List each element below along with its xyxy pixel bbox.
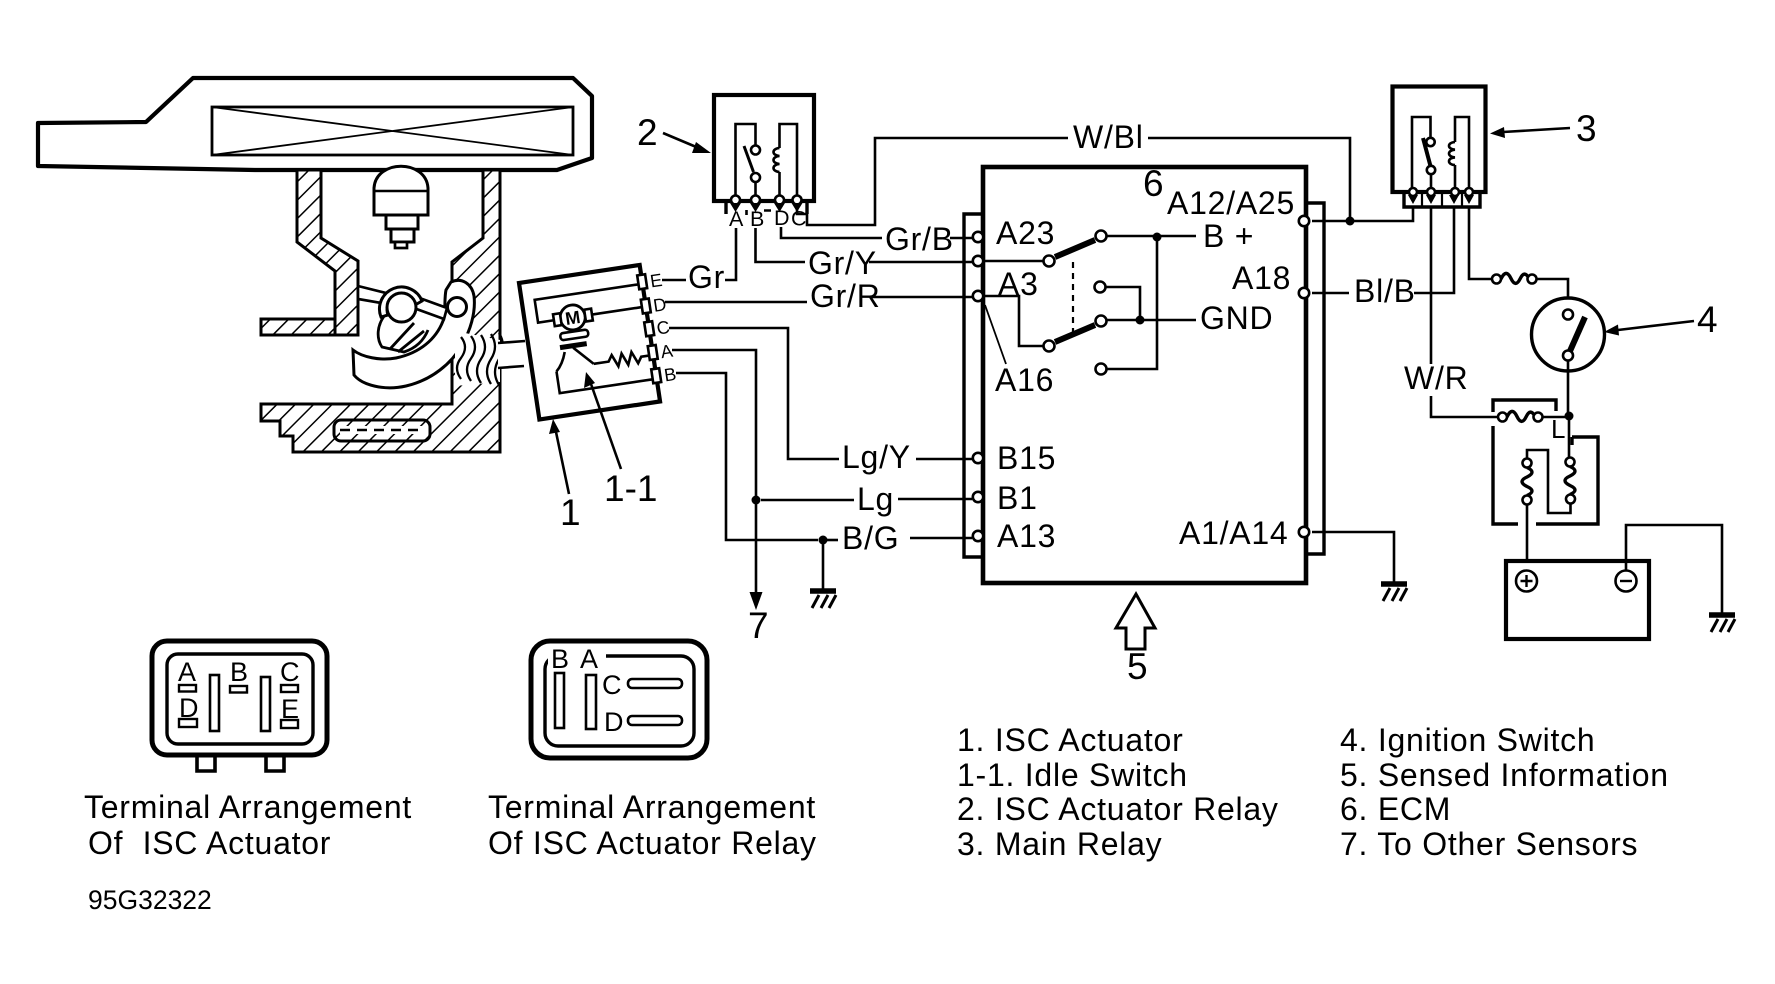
svg-text:D: D (604, 707, 624, 737)
svg-text:A: A (729, 207, 744, 231)
wire Lg (pin A of ISC to ECM B1) (672, 350, 756, 500)
junction GND (1136, 316, 1145, 325)
wire motor to D pin (592, 307, 642, 314)
pin A23 (973, 232, 983, 242)
svg-text:A1/A14: A1/A14 (1179, 515, 1288, 551)
wire A1/A14 to ground (1312, 532, 1394, 583)
svg-text:Gr/R: Gr/R (810, 278, 881, 314)
ground from B/G junction (822, 540, 825, 590)
battery negative terminal (1616, 571, 1637, 592)
pin stubs (637, 274, 647, 289)
pin A12/A25 (1299, 216, 1309, 226)
sensed information arrow (5) (1116, 594, 1155, 649)
pin A23/Gr-Y contact pin (973, 256, 983, 266)
middle contact and GND (1095, 282, 1106, 293)
svg-text:GND: GND (1200, 300, 1273, 336)
wire to other sensors (7) (755, 500, 758, 592)
svg-text:Lg/Y: Lg/Y (842, 439, 911, 475)
svg-text:3: 3 (1576, 108, 1597, 149)
svg-text:Gr: Gr (688, 259, 725, 295)
svg-text:6. ECM: 6. ECM (1340, 791, 1451, 827)
svg-text:A: A (580, 644, 598, 674)
fuse (upper) (1492, 275, 1501, 284)
svg-text:A: A (178, 657, 196, 687)
svg-text:A18: A18 (1232, 260, 1291, 296)
svg-text:1-1. Idle Switch: 1-1. Idle Switch (957, 757, 1188, 793)
svg-text:Terminal Arrangement: Terminal Arrangement (84, 789, 412, 825)
junction B+ (1153, 233, 1162, 242)
pin B1 (973, 492, 983, 502)
svg-text:7. To Other Sensors: 7. To Other Sensors (1340, 826, 1638, 862)
fusible link box outline (1493, 426, 1598, 524)
svg-text:B: B (230, 657, 248, 687)
throttle lever rod upper-left (358, 286, 390, 304)
upper switch (B+ relay contact) (1044, 256, 1055, 267)
ground (battery negative) (1709, 615, 1735, 632)
ganged switch dashed link (1072, 262, 1074, 334)
junction on Lg wire (752, 496, 761, 505)
svg-text:Of ISC Actuator: Of ISC Actuator (88, 825, 331, 861)
small hatched box in floor (334, 420, 430, 441)
ground (A1/A14) (1381, 584, 1407, 601)
wire motor to E pin (535, 284, 642, 322)
svg-text:Gr/Y: Gr/Y (808, 245, 877, 281)
fusible links (1568, 416, 1571, 457)
svg-text:L: L (1551, 414, 1565, 444)
idle switch 1-1 (560, 344, 587, 348)
wire ignition to junction (1567, 361, 1570, 414)
junction on B/G wire (819, 536, 828, 545)
relay 3 shell (1404, 193, 1480, 207)
ECM left connector bracket (964, 214, 983, 557)
svg-text:5. Sensed Information: 5. Sensed Information (1340, 757, 1669, 793)
relay 2 shell stubs (726, 201, 807, 214)
throttle cam crescent with bird-head bulb (353, 280, 474, 387)
right hatched wall and floor (261, 170, 500, 452)
wire A12/A25 to main relay pin 1 (1312, 207, 1413, 221)
svg-text:M: M (564, 307, 582, 329)
svg-text:C: C (280, 657, 300, 687)
callout 1 arrow (556, 432, 569, 494)
fuse (lower) (1498, 413, 1507, 422)
wire Gr (pin E to relay 2 pin A) (662, 279, 686, 282)
svg-text:1. ISC Actuator: 1. ISC Actuator (957, 722, 1183, 758)
relay 2 switch (736, 124, 756, 197)
svg-text:C: C (602, 670, 622, 700)
callout 1-1 arrow (591, 384, 621, 469)
svg-text:5: 5 (1127, 646, 1148, 687)
pivot circle (387, 293, 416, 322)
svg-text:Gr/B: Gr/B (885, 221, 954, 257)
svg-text:B15: B15 (997, 440, 1056, 476)
junction ignition/fusible link (1565, 412, 1574, 421)
idle air screw (bell valve) (374, 166, 428, 215)
svg-text:B1: B1 (997, 480, 1038, 516)
left ledge (261, 319, 335, 335)
throttle body top bar outline (38, 78, 592, 170)
throttle lever body (378, 315, 428, 352)
svg-text:D: D (774, 206, 790, 230)
fuse bracket (1493, 400, 1556, 412)
wire W/Bl (relay 2 pin C to main relay) (797, 138, 1068, 225)
svg-text:2: 2 (637, 112, 658, 153)
bellows boot (455, 331, 500, 386)
svg-text:A13: A13 (997, 518, 1056, 554)
ground (B/G) (810, 591, 836, 608)
throttle plate rod to cam (411, 296, 447, 319)
contact bar (560, 329, 589, 340)
wire W/R (main relay pin 2 down) (1431, 207, 1497, 417)
svg-text:W/R: W/R (1404, 360, 1468, 396)
svg-text:4: 4 (1697, 299, 1718, 340)
lower switch (1044, 341, 1055, 352)
svg-text:4. Ignition Switch: 4. Ignition Switch (1340, 722, 1595, 758)
relay 2 box (714, 95, 814, 201)
battery positive terminal (1516, 571, 1537, 592)
A16 leader line (985, 305, 1006, 364)
wire from A3 pin to lower switch (984, 296, 1043, 346)
wire Lg/Y (pin C of ISC to ECM B15) (669, 328, 839, 459)
svg-text:A23: A23 (996, 215, 1055, 251)
resistor (593, 350, 650, 370)
battery negative wire to ground (1626, 525, 1722, 614)
left hatched wall (297, 170, 358, 335)
svg-text:A16: A16 (995, 362, 1054, 398)
wire Bl/B (A18 to main relay pin 3) (1312, 292, 1349, 295)
X-cross rectangle (212, 107, 573, 155)
junction W/Bl to A12/A25 wire (1346, 217, 1355, 226)
shaft into ISC actuator (498, 341, 525, 369)
svg-text:B: B (551, 644, 569, 674)
ECM internal: wire from Gr/Y pin to upper switch (984, 260, 1043, 263)
svg-text:2. ISC Actuator Relay: 2. ISC Actuator Relay (957, 791, 1279, 827)
svg-text:Lg: Lg (857, 481, 894, 517)
svg-text:A12/A25: A12/A25 (1167, 185, 1295, 221)
ECM box (983, 167, 1306, 583)
battery (1506, 561, 1649, 639)
svg-text:B/G: B/G (842, 520, 899, 556)
ECM right connector bracket (1306, 203, 1324, 554)
svg-text:Bl/B: Bl/B (1354, 273, 1416, 309)
svg-text:3. Main Relay: 3. Main Relay (957, 826, 1162, 862)
svg-text:W/Bl: W/Bl (1073, 119, 1144, 155)
svg-text:1-1: 1-1 (604, 468, 657, 509)
svg-text:1: 1 (560, 492, 581, 533)
wire Gr/B (relay 2 pin D to ECM A23) (781, 227, 882, 238)
wire Gr/R (pin D of ISC to ECM A3) (665, 301, 807, 304)
wire B/G (pin B of ISC to ECM A13) (676, 373, 818, 540)
main relay 3 (1393, 87, 1486, 208)
svg-text:B: B (750, 207, 764, 231)
svg-text:7: 7 (748, 605, 769, 646)
pin B15 (973, 453, 983, 463)
svg-text:B +: B + (1203, 218, 1254, 254)
cam hole (448, 298, 467, 317)
pin A18 (1299, 288, 1309, 298)
pivot boss ring (379, 287, 422, 317)
svg-text:95G32322: 95G32322 (88, 885, 212, 915)
pin A13 (973, 531, 983, 541)
relay 2 coil (780, 124, 798, 197)
svg-text:6: 6 (1143, 163, 1164, 204)
wire Gr/Y (relay 2 pin B to ECM) (756, 228, 806, 262)
relay 2 pins (731, 196, 740, 205)
svg-text:Terminal Arrangement: Terminal Arrangement (488, 789, 816, 825)
pin A1/A14 (1299, 527, 1309, 537)
wire to B pin (556, 358, 652, 394)
svg-text:Of ISC Actuator Relay: Of ISC Actuator Relay (488, 825, 817, 861)
ignition switch 4 body (1532, 298, 1605, 371)
pin A3 (973, 291, 983, 301)
vertical B+ bus (1107, 237, 1157, 369)
motor M (558, 303, 586, 331)
wire main relay pin 4 to ignition fuse (1469, 207, 1491, 279)
svg-text:C: C (791, 207, 807, 231)
